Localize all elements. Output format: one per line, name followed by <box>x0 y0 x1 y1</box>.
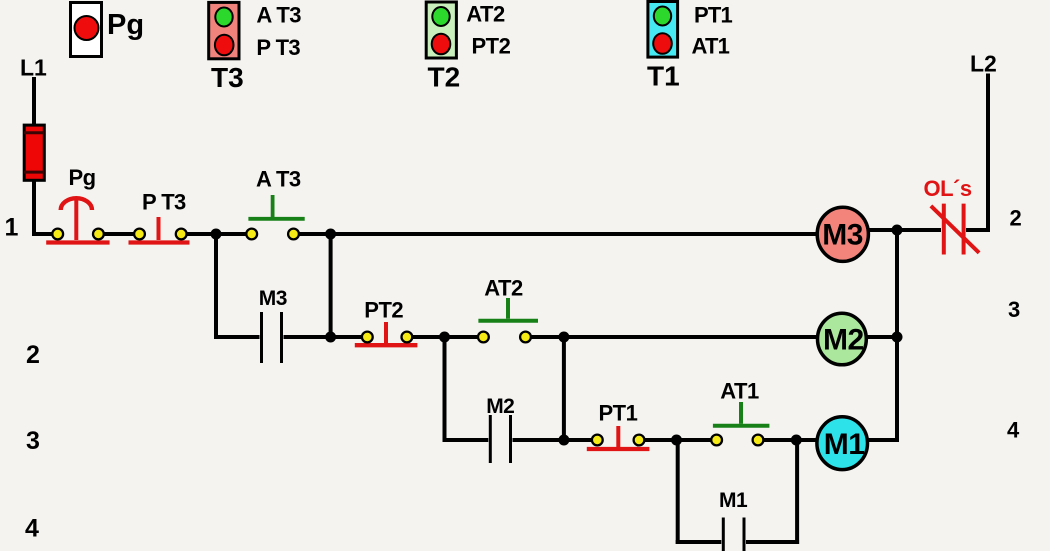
svg-text:M2: M2 <box>823 323 864 356</box>
svg-text:PT1: PT1 <box>694 2 733 27</box>
svg-text:AT2: AT2 <box>484 276 523 301</box>
svg-text:M2: M2 <box>486 395 514 418</box>
svg-text:M1: M1 <box>824 428 865 461</box>
svg-text:L2: L2 <box>970 51 997 77</box>
svg-text:PT2: PT2 <box>364 298 403 323</box>
svg-text:T2: T2 <box>428 61 461 92</box>
svg-text:P T3: P T3 <box>142 190 186 215</box>
svg-text:2: 2 <box>26 341 40 369</box>
svg-text:AT2: AT2 <box>466 2 505 27</box>
svg-text:3: 3 <box>26 427 40 455</box>
svg-text:M3: M3 <box>259 287 287 310</box>
svg-text:4: 4 <box>1007 417 1020 442</box>
svg-text:A T3: A T3 <box>256 167 301 192</box>
svg-text:4: 4 <box>25 515 39 543</box>
svg-text:OL´s: OL´s <box>924 176 972 201</box>
svg-text:Pg: Pg <box>107 9 144 41</box>
svg-text:3: 3 <box>1008 297 1020 322</box>
svg-text:PT2: PT2 <box>472 34 511 59</box>
svg-text:M1: M1 <box>719 489 748 512</box>
svg-text:1: 1 <box>5 213 19 241</box>
svg-text:A T3: A T3 <box>256 3 301 28</box>
svg-text:PT1: PT1 <box>599 401 638 426</box>
svg-text:T3: T3 <box>211 62 244 93</box>
svg-text:AT1: AT1 <box>692 34 730 59</box>
svg-text:2: 2 <box>1010 206 1022 231</box>
svg-text:M3: M3 <box>822 219 863 252</box>
svg-text:AT1: AT1 <box>720 379 759 404</box>
svg-text:Pg: Pg <box>69 165 96 190</box>
svg-text:P T3: P T3 <box>256 35 300 60</box>
svg-text:T1: T1 <box>647 60 680 91</box>
svg-text:L1: L1 <box>20 55 47 81</box>
